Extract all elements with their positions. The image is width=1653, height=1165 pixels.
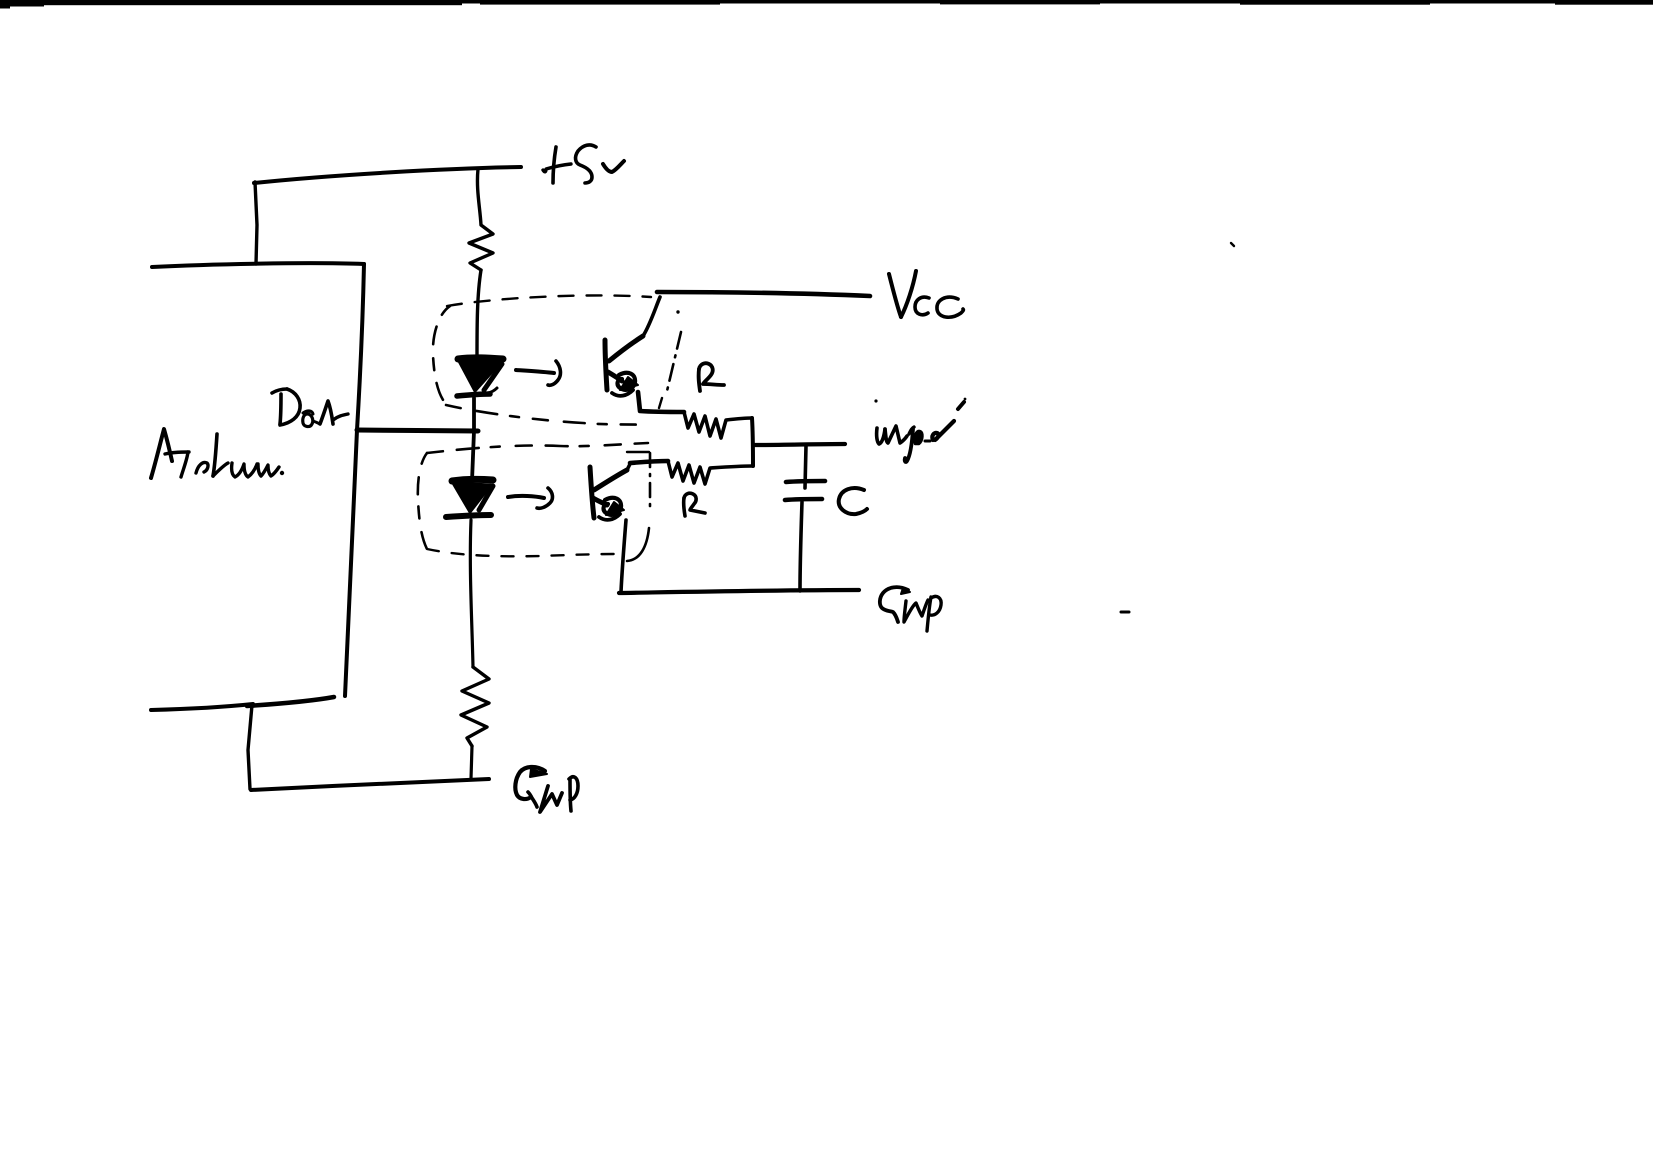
label: +5v	[543, 145, 624, 183]
wire: Q2 emitter down to GND rail	[621, 520, 626, 592]
scanner edge artifact (top black bar)	[0, 0, 1653, 9]
wire: Arduino +5V pin drop	[255, 182, 257, 264]
resistor R bottom (LED series resistor)	[461, 667, 489, 746]
phototransistor Q1 (K symbol)	[605, 297, 660, 396]
wire: bottom resistor to GND rail	[471, 746, 472, 779]
wire: LED2 cathode down to bottom resistor	[470, 520, 473, 667]
wire: Q2 collector lead to R2	[630, 461, 668, 463]
optocoupler U2 dashed outline	[418, 443, 650, 561]
resistor R2	[668, 461, 752, 484]
wire: Dout pin to junction node	[357, 430, 478, 431]
LED D2 (IR emitter of optocoupler 2)	[446, 479, 493, 517]
label: Vcc	[889, 271, 963, 317]
wire: output node to wyjscie label	[755, 444, 845, 445]
light arrow: LED2 to Q2	[508, 488, 552, 508]
capacitor C	[785, 446, 825, 591]
label: Dout	[272, 389, 348, 427]
wire: +5V rail from Arduino top to resistor column	[254, 167, 521, 183]
stray mark (dot near Vcc corner)	[676, 310, 679, 313]
label: C	[839, 488, 867, 514]
label: GND (right)	[880, 587, 941, 631]
wire: Arduino GND pin drop (bottom)	[248, 705, 252, 789]
node: R1/R2 right junction vertical	[752, 418, 753, 466]
light arrow: LED1 to Q1	[516, 361, 560, 385]
label: R (lower)	[684, 493, 705, 516]
LED D1 (IR emitter of optocoupler 1)	[457, 358, 503, 396]
label: wyjscie (output)	[874, 398, 966, 462]
resistor R1	[684, 412, 752, 438]
label: GND (bottom left)	[515, 767, 578, 812]
wire: resistor to LED1 anode	[477, 270, 481, 358]
wire: LED1 cathode to Dout node	[472, 398, 476, 431]
optocoupler U1 dashed outline	[433, 295, 681, 425]
phototransistor Q2 (K symbol)	[590, 464, 630, 520]
label: R (upper)	[699, 363, 724, 391]
wire: Q1 emitter lead to R1	[638, 392, 684, 412]
stray mark (dash, middle right)	[1121, 611, 1129, 614]
wire: Dout node down to LED2 anode	[472, 431, 474, 481]
wire: Vcc rail	[657, 292, 870, 296]
stray mark (dot, upper right)	[1231, 243, 1234, 246]
Arduino module body (open-left box)	[151, 263, 364, 710]
label: Arduino	[151, 429, 284, 478]
wire: GND rail (right side)	[619, 590, 859, 593]
resistor R top (LED series resistor)	[469, 169, 493, 270]
wire: GND rail (Arduino side, bottom)	[251, 779, 489, 790]
